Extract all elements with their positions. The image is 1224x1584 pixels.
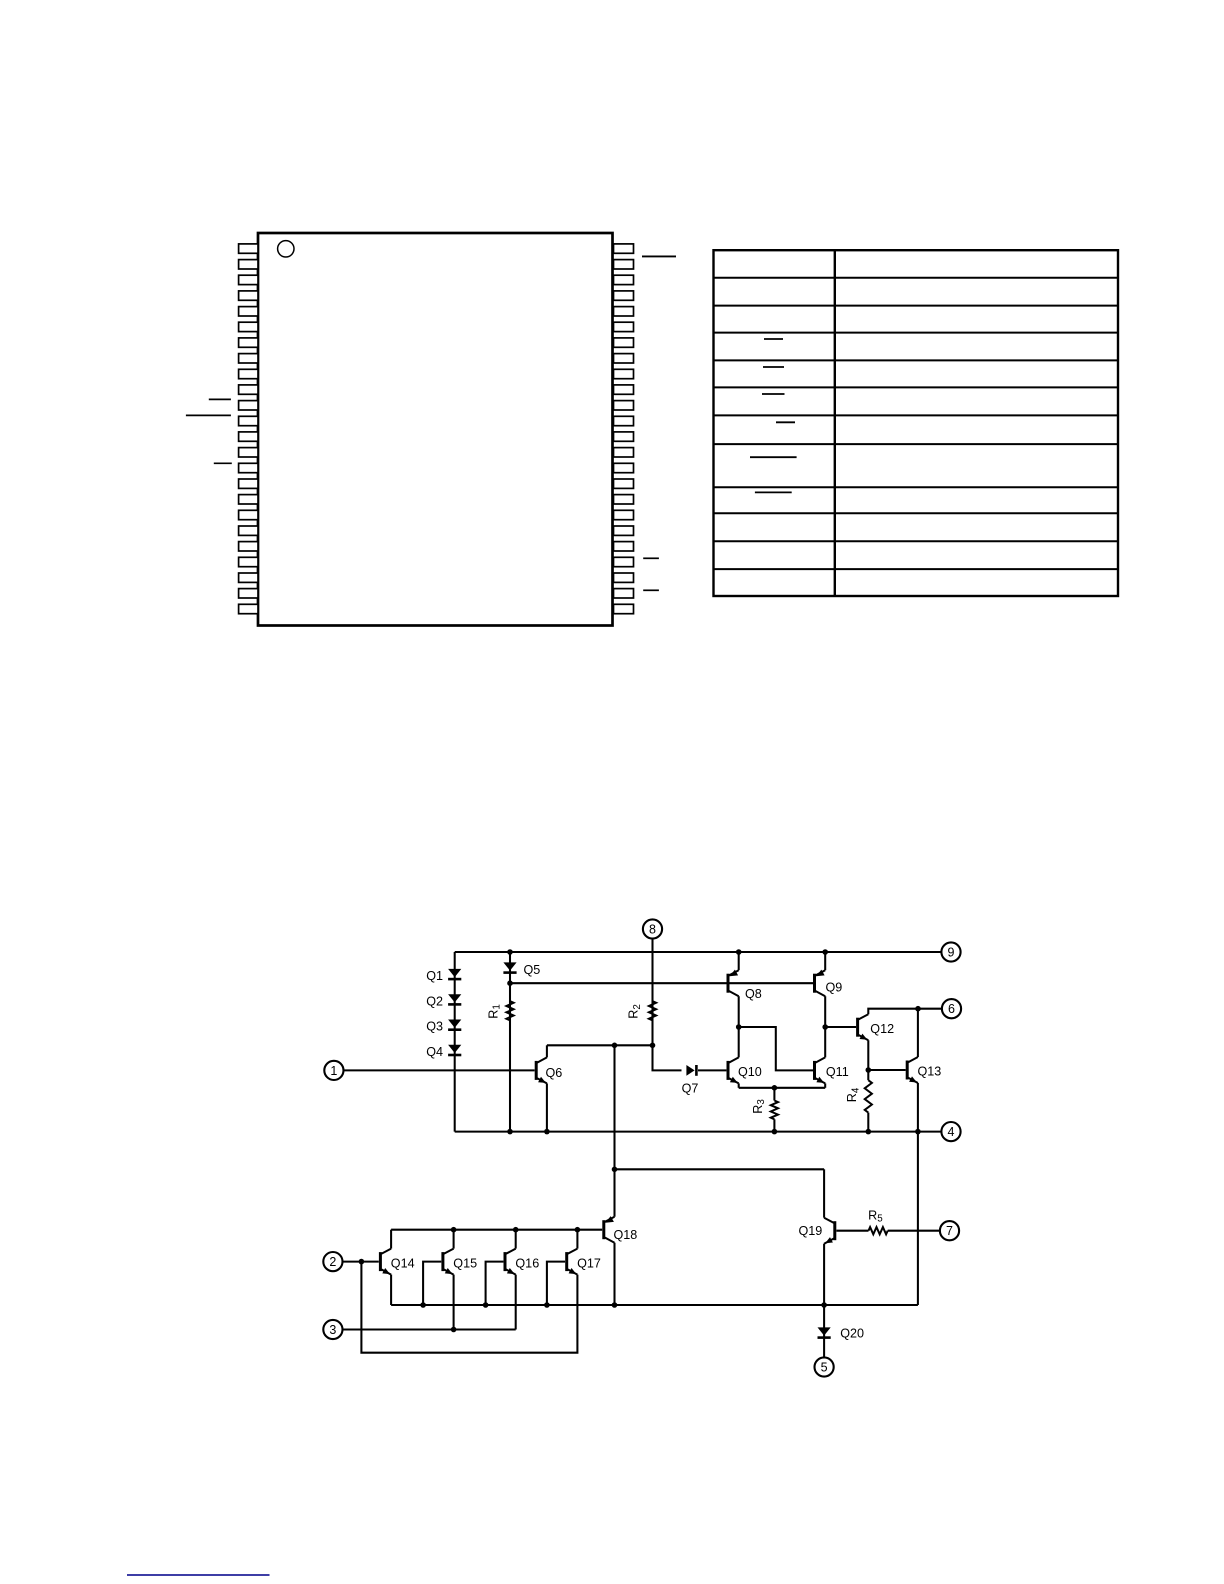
- wire Q8 collector to Q11 base: [739, 1027, 814, 1070]
- wire Q16 emitter to node 3: [515, 1275, 517, 1330]
- node 8 terminal: [643, 919, 662, 938]
- svg-text:Q11: Q11: [826, 1065, 849, 1079]
- wire base bus / emitter return: [391, 1304, 918, 1306]
- junction Q17 base / base bus: [544, 1302, 550, 1308]
- svg-text:Q10: Q10: [738, 1065, 762, 1079]
- junction Q18 emitter / bus: [612, 1302, 618, 1308]
- svg-text:4: 4: [948, 1125, 955, 1139]
- junction Q9 emitter / rail: [822, 949, 828, 955]
- wire Q12 base: [825, 1026, 856, 1028]
- junction Q9 collector / Q12 base tap: [822, 1024, 828, 1030]
- svg-text:6: 6: [948, 1002, 955, 1016]
- overbar mark, table row 6: [762, 393, 785, 395]
- junction R3 / rail: [772, 1129, 778, 1135]
- junction node 2 / Q17 emitter return: [359, 1259, 365, 1265]
- wire Q15 base to base bus: [423, 1262, 441, 1305]
- junction Q6 emitter / rail: [544, 1129, 550, 1135]
- junction Q15 emitter / node 3 wire: [451, 1327, 457, 1333]
- junction R3 top: [772, 1085, 778, 1091]
- junction Q16 collector / bus: [513, 1227, 519, 1233]
- wire Q6 collector node: [547, 1044, 653, 1046]
- wire collector bus to Q18 base: [391, 1229, 602, 1231]
- wire Q10 collector up: [738, 1027, 740, 1057]
- diode Q3: [426, 1020, 461, 1034]
- transistor Q16: [505, 1249, 539, 1275]
- wire input clamp diode chain: [454, 952, 456, 1132]
- transistor Q15: [443, 1249, 477, 1275]
- transistor Q10: [728, 1057, 762, 1083]
- wire node 2 to Q14 base: [343, 1261, 379, 1263]
- wire R3 top lead: [773, 1088, 775, 1101]
- wire to Q7 anode: [653, 1045, 682, 1070]
- transistor Q8: [728, 970, 762, 1001]
- junction Q16 base / base bus: [483, 1302, 489, 1308]
- wire Q12 emitter down: [867, 1040, 869, 1070]
- wire Q9 emitter to rail: [824, 952, 826, 970]
- junction bias line tap: [612, 1043, 618, 1049]
- wire Q10/Q11 emitters: [739, 1087, 826, 1089]
- svg-text:7: 7: [946, 1224, 953, 1238]
- junction Q5 cathode / R1 top: [507, 980, 513, 986]
- svg-text:Q14: Q14: [391, 1257, 415, 1271]
- wire Q6 emitter to ground rail: [546, 1083, 548, 1131]
- node 6 terminal: [942, 999, 961, 1018]
- wire Q10 emitter stub: [738, 1083, 740, 1087]
- wire Q19 base to R5: [836, 1230, 868, 1232]
- resistor R5: [868, 1208, 888, 1234]
- diode Q2: [426, 994, 461, 1008]
- overbar mark, table row 9: [755, 491, 792, 493]
- diode Q5: [503, 962, 540, 977]
- svg-text:Q16: Q16: [515, 1257, 539, 1271]
- resistor R3: [751, 1099, 778, 1120]
- wire Q13 emitter to bus right end: [917, 1132, 919, 1305]
- overbar mark, left pin 15: [214, 462, 232, 464]
- svg-text:Q9: Q9: [826, 981, 843, 995]
- overbar mark, right pin 21: [643, 557, 659, 559]
- node 7 terminal: [940, 1221, 959, 1240]
- diode Q1: [426, 969, 461, 983]
- wire Q9 collector down: [824, 996, 826, 1027]
- node 1 terminal: [324, 1061, 343, 1080]
- wire Q6 collector: [546, 1045, 548, 1057]
- junction Q8 collector / Q10 collector: [736, 1024, 742, 1030]
- right pin row of package: [614, 244, 634, 614]
- svg-text:Q7: Q7: [682, 1082, 699, 1096]
- transistor Q11: [815, 1057, 849, 1083]
- wire Q12 collector to node 6: [868, 1009, 942, 1015]
- wire Q15 emitter to node 3: [453, 1275, 455, 1330]
- wire Q14 collector: [390, 1230, 392, 1249]
- svg-text:Q6: Q6: [546, 1066, 563, 1080]
- resistor R1: [486, 1001, 513, 1020]
- diode Q4: [426, 1045, 461, 1059]
- transistor Q12: [858, 1014, 895, 1040]
- wire ground rail to node 4: [455, 1131, 942, 1133]
- wire bias line down to Q18 collector: [613, 1045, 615, 1216]
- svg-text:Q17: Q17: [577, 1257, 601, 1271]
- svg-text:Q3: Q3: [426, 1020, 443, 1034]
- wire Q13 collector up: [917, 1009, 919, 1057]
- footer link rule: [127, 1574, 270, 1576]
- wire node 8 through R2: [651, 939, 653, 1046]
- junction R1 / rail: [507, 1129, 513, 1135]
- wire Q7 cathode to Q10 base: [698, 1069, 726, 1071]
- wire Q11 collector up: [824, 1027, 826, 1057]
- junction bias line / Q19 collector wire: [612, 1167, 618, 1173]
- node 3 terminal: [323, 1320, 342, 1339]
- transistor Q14: [380, 1249, 414, 1275]
- wire to Q19 collector: [615, 1168, 825, 1170]
- overbar mark, left pin 11: [209, 398, 231, 400]
- svg-text:Q5: Q5: [524, 963, 541, 977]
- resistor R4: [845, 1080, 872, 1112]
- wire node 1 to Q6 base: [344, 1069, 535, 1071]
- overbar mark, table row 5: [763, 366, 784, 368]
- left pin row of package: [239, 244, 258, 614]
- wire Q8 emitter to rail: [738, 952, 740, 970]
- wire Q16 base to base bus: [486, 1262, 504, 1305]
- wire Q17 emitter return to node 2: [361, 1262, 577, 1353]
- IC package outline: [258, 233, 613, 626]
- svg-text:Q19: Q19: [798, 1224, 822, 1238]
- junction Q13 collector / node 6: [915, 1006, 921, 1012]
- junction Q15 collector / bus: [451, 1227, 457, 1233]
- wire Q8 collector down: [738, 996, 740, 1027]
- junction Q8 emitter / rail: [736, 949, 742, 955]
- wire Q5 cathode to Q8/Q9 bases: [510, 982, 813, 984]
- svg-text:2: 2: [329, 1255, 336, 1269]
- pin function table: [714, 250, 1119, 596]
- overbar mark, left pin 12: [186, 414, 231, 416]
- junction R4 / rail: [866, 1129, 872, 1135]
- wire Q17 base to base bus: [547, 1262, 565, 1305]
- wire Q19 emitter down: [823, 1244, 825, 1305]
- svg-text:5: 5: [821, 1360, 828, 1374]
- junction Q19 emitter / Q20: [821, 1302, 827, 1308]
- wire Q11 emitter stub: [824, 1083, 826, 1087]
- node 4 terminal: [941, 1122, 960, 1141]
- junction Q15 base / base bus: [420, 1302, 426, 1308]
- svg-text:Q20: Q20: [840, 1327, 864, 1341]
- svg-text:Q4: Q4: [426, 1045, 443, 1059]
- svg-text:Q2: Q2: [426, 994, 443, 1008]
- overbar mark, table row 7: [776, 421, 795, 423]
- svg-text:Q1: Q1: [426, 969, 443, 983]
- wire Q17 collector: [576, 1230, 578, 1249]
- svg-text:8: 8: [649, 922, 656, 936]
- junction Q13 emitter / ground rail: [915, 1129, 921, 1135]
- wire node 3 to Q15/Q16 emitters: [343, 1328, 516, 1330]
- transistor Q9: [815, 970, 843, 997]
- wire R5 to node 7: [888, 1230, 940, 1232]
- wire Q13 emitter to rail: [917, 1083, 919, 1132]
- wire to Q20 anode: [823, 1305, 825, 1357]
- diode Q7: [682, 1065, 699, 1096]
- svg-text:Q15: Q15: [453, 1257, 477, 1271]
- svg-text:Q18: Q18: [614, 1228, 638, 1242]
- wire Q16 collector: [515, 1230, 517, 1249]
- svg-text:R1: R1: [486, 1004, 502, 1019]
- transistor Q13: [907, 1057, 941, 1083]
- node 9 terminal: [941, 942, 960, 961]
- transistor Q18: [604, 1216, 638, 1243]
- overbar mark, right pin 23: [643, 589, 659, 591]
- svg-text:R4: R4: [845, 1087, 861, 1102]
- transistor Q19: [798, 1218, 834, 1244]
- svg-text:R2: R2: [627, 1004, 643, 1019]
- wire Q19 collector: [823, 1169, 825, 1217]
- transistor Q17: [567, 1249, 601, 1275]
- svg-text:R5: R5: [868, 1208, 883, 1224]
- diode Q20: [818, 1327, 865, 1341]
- overbar mark, right pin 2: [642, 255, 676, 257]
- transistor Q6: [536, 1057, 562, 1083]
- svg-text:Q13: Q13: [918, 1065, 942, 1079]
- svg-text:3: 3: [329, 1323, 336, 1337]
- junction R2 bottom: [650, 1043, 656, 1049]
- wire Q5/R1 branch: [509, 952, 511, 1132]
- wire Q18 emitter down: [613, 1243, 615, 1305]
- junction Q17 collector / bus: [575, 1227, 581, 1233]
- svg-text:Q8: Q8: [745, 987, 762, 1001]
- wire Q15 collector: [453, 1230, 455, 1249]
- wire Q14 emitter to base bus: [390, 1275, 392, 1305]
- overbar mark, table row 8: [750, 456, 797, 458]
- svg-text:1: 1: [330, 1064, 337, 1078]
- wire R4 bottom lead: [867, 1113, 869, 1132]
- wire R3 bottom lead: [773, 1119, 775, 1131]
- pin 1 index circle: [278, 241, 294, 257]
- wire R4 top lead: [867, 1070, 869, 1080]
- svg-text:9: 9: [948, 945, 955, 959]
- resistor R2: [627, 1001, 657, 1020]
- node 5 terminal: [815, 1357, 834, 1376]
- junction Q12 emitter / Q13 base / R4: [866, 1067, 872, 1073]
- svg-text:R3: R3: [751, 1099, 767, 1114]
- svg-text:Q12: Q12: [870, 1022, 894, 1036]
- wire Vcc rail to node 9: [455, 951, 942, 953]
- overbar mark, table row 4: [764, 338, 783, 340]
- junction Vcc rail / Q5 branch: [507, 949, 513, 955]
- node 2 terminal: [323, 1252, 342, 1271]
- wire Q13 base: [868, 1069, 905, 1071]
